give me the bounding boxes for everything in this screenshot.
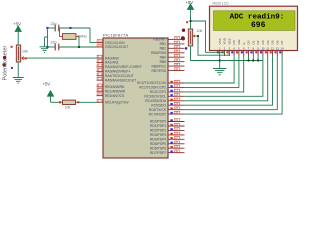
- pin RC6/TX/CK (25) right: [149, 107, 185, 112]
- state square RC7: [170, 112, 172, 114]
- svg-text:RD0/PSP0: RD0/PSP0: [150, 120, 166, 124]
- svg-text:8MHz: 8MHz: [78, 34, 88, 38]
- state square LCD VEE: [226, 51, 228, 53]
- pin RA4/T0CKI/C1OUT (6) left: [97, 73, 134, 78]
- svg-text:ADC readin9:: ADC readin9:: [230, 13, 285, 21]
- svg-text:RC6/TX/CK: RC6/TX/CK: [149, 108, 167, 112]
- state square LCD VDD: [222, 51, 224, 53]
- pin RA3/AN3/VREF+ (5) left: [97, 69, 131, 74]
- wire pot bottom to ground rail: [191, 46, 220, 61]
- svg-text:10k: 10k: [22, 50, 28, 54]
- state square RB2: [185, 47, 187, 49]
- LCD pin VEE (3): [227, 38, 231, 56]
- potentiometer RV1 10k: [2, 45, 27, 69]
- state square LCD RS: [231, 51, 233, 53]
- svg-text:RA5/AN4/SS/C2OUT: RA5/AN4/SS/C2OUT: [105, 78, 136, 82]
- power +5V (LCD contrast): [186, 0, 194, 29]
- svg-text:MCLR/Vpp/THV: MCLR/Vpp/THV: [105, 101, 129, 105]
- state square LCD D7: [279, 51, 281, 53]
- state square RD2: [170, 128, 172, 130]
- pin RD2/PSP2 (21) right: [150, 128, 184, 133]
- junction D2: [257, 59, 259, 61]
- svg-text:RW: RW: [237, 39, 241, 44]
- pin RB1 (34) right: [160, 41, 185, 46]
- svg-text:RB7/PGD: RB7/PGD: [152, 69, 167, 73]
- state square LCD D3: [260, 51, 262, 53]
- state square RD5: [170, 142, 172, 144]
- svg-text:RD1/PSP1: RD1/PSP1: [150, 124, 166, 128]
- LCD pin D7 (14): [280, 40, 284, 56]
- wire pot wiper to RA0/AN0: [26, 57, 97, 59]
- pin RE0/AN5/RD (8) left: [97, 84, 126, 89]
- capacitor C2 22p (bottom): [46, 41, 96, 51]
- wire LCD D2 to ground rail: [257, 56, 259, 61]
- pin RD1/PSP1 (20) right: [150, 123, 184, 128]
- svg-text:VEE: VEE: [227, 38, 231, 44]
- pin RE2/AN7/CS (10) left: [97, 93, 126, 98]
- svg-text:10k: 10k: [65, 106, 71, 110]
- svg-text:RD6/PSP6: RD6/PSP6: [150, 146, 166, 150]
- junction VSS/ground rail: [219, 59, 221, 61]
- LCD pin VDD (2): [223, 37, 227, 56]
- svg-text:D1: D1: [251, 40, 255, 44]
- svg-text:RB3/PGM: RB3/PGM: [151, 51, 166, 55]
- state square RD7: [170, 151, 172, 153]
- capacitor C1 22p (top): [46, 22, 90, 31]
- power +5V (left pot supply): [14, 22, 22, 46]
- svg-text:RC2/CCP1: RC2/CCP1: [150, 90, 166, 94]
- svg-text:PIC16F877A: PIC16F877A: [103, 33, 128, 38]
- svg-text:RS: RS: [232, 40, 236, 44]
- wire LCD E to PIC (RC bank): [185, 56, 244, 92]
- junction D1: [252, 59, 254, 61]
- state square LCD D5: [270, 51, 272, 53]
- svg-text:OSC1/CLKIN: OSC1/CLKIN: [105, 41, 125, 45]
- svg-text:RE0/AN5/RD: RE0/AN5/RD: [105, 85, 125, 89]
- state square RC3: [170, 94, 172, 96]
- svg-text:RC5/SDO: RC5/SDO: [151, 103, 166, 107]
- crystal X1 8MHz: [60, 28, 88, 48]
- wire LCD D5 to PIC (RC bank): [185, 56, 273, 105]
- state square LCD E: [241, 51, 243, 53]
- svg-text:RC7/RX/DT: RC7/RX/DT: [149, 112, 166, 116]
- junction wiper: [197, 35, 199, 37]
- ground (LCD): [213, 69, 226, 75]
- pin RD3/PSP3 (22) right: [150, 132, 184, 137]
- svg-text:D6: D6: [275, 40, 279, 44]
- svg-text:E: E: [242, 42, 246, 44]
- pin RD7/PSP7 (30) right: [150, 150, 184, 155]
- svg-text:RD5/PSP5: RD5/PSP5: [150, 142, 166, 146]
- pin RB3/PGM (36) right: [151, 50, 184, 55]
- pin RD5/PSP5 (28) right: [150, 141, 184, 146]
- junction pot top: [189, 20, 191, 22]
- svg-text:RE2/AN7/CS: RE2/AN7/CS: [105, 94, 125, 98]
- svg-text:RD4/PSP4: RD4/PSP4: [150, 138, 166, 142]
- wire LCD D0 to ground rail: [248, 56, 250, 61]
- LCD pin RW (5): [237, 39, 241, 56]
- state square RD6: [170, 146, 172, 148]
- state square RC0: [170, 81, 172, 83]
- resistor R1 10k: [51, 100, 97, 109]
- ground below pot: [13, 62, 24, 83]
- pin RC3/SCK/SCL (18) right: [144, 94, 184, 99]
- wire LCD D3 to PIC (RC bank): [185, 56, 263, 96]
- state square RD4: [170, 137, 172, 139]
- junction D0: [247, 59, 249, 61]
- pin RB2 (35) right: [160, 46, 185, 51]
- pin RB0/INT (33) right: [153, 37, 184, 42]
- svg-text:D0: D0: [247, 40, 251, 44]
- state square RC5: [170, 103, 172, 105]
- pin RC0/T1OSO/T1CKI (15) right: [137, 80, 184, 85]
- state square LCD D4: [265, 51, 267, 53]
- pin RA0/AN0 (2) left: [97, 55, 119, 60]
- svg-text:RB6/PGC: RB6/PGC: [152, 64, 167, 68]
- pin RC2/CCP1 (17) right: [150, 89, 185, 94]
- LCD pin D3 (10): [261, 40, 265, 56]
- svg-text:+5V: +5V: [43, 81, 51, 86]
- svg-text:RC4/SDI/SDA: RC4/SDI/SDA: [145, 99, 167, 103]
- wire LCD D1 to ground rail: [252, 56, 254, 61]
- pin RB4 (37) right: [160, 54, 185, 59]
- LCD pin D0 (7): [247, 40, 251, 56]
- svg-text:+5V: +5V: [186, 0, 194, 5]
- pin RC7/RX/DT (26) right: [149, 111, 185, 116]
- LCD LM016L body: [210, 6, 298, 50]
- pin OSC2/CLKOUT (14) left: [97, 44, 129, 49]
- LCD screen: [214, 11, 296, 31]
- LCD pin D4 (11): [266, 40, 270, 56]
- svg-text:VDD: VDD: [223, 37, 227, 44]
- svg-text:RA4/T0CKI/C1OUT: RA4/T0CKI/C1OUT: [105, 74, 134, 78]
- svg-text:RB0/INT: RB0/INT: [153, 38, 166, 42]
- state square RB0: [181, 36, 185, 40]
- pin RC4/SDI/SDA (23) right: [145, 98, 184, 103]
- wire OSC1: [89, 28, 91, 43]
- svg-text:RD2/PSP2: RD2/PSP2: [150, 129, 166, 133]
- svg-text:RD7/PSP7: RD7/PSP7: [150, 151, 166, 155]
- pin RD6/PSP6 (29) right: [150, 145, 184, 150]
- svg-text:Potentiometer: Potentiometer: [3, 46, 9, 81]
- pin RA2/AN2/VREF-/CVREF (4) left: [97, 64, 142, 69]
- wire caps left rail: [47, 28, 49, 47]
- svg-text:RC3/SCK/SCL: RC3/SCK/SCL: [144, 95, 166, 99]
- LCD pin D1 (8): [251, 40, 255, 56]
- svg-text:RA1/AN1: RA1/AN1: [105, 61, 119, 65]
- wire wiper to VEE: [197, 36, 230, 55]
- wire VSS down to ground: [219, 56, 221, 69]
- ground rail D0-D2: [220, 60, 263, 62]
- LCD pin D5 (12): [271, 40, 275, 56]
- svg-text:D2: D2: [256, 40, 260, 44]
- state square RD1: [170, 124, 172, 126]
- wire LCD RS to PIC (RC bank): [185, 56, 235, 83]
- svg-text:696: 696: [251, 21, 266, 30]
- potentiometer RV2 10k (contrast): [182, 21, 203, 49]
- LCD pin RS (4): [232, 40, 236, 56]
- LCD pin E (6): [242, 42, 246, 56]
- LCD pin D2 (9): [256, 40, 260, 56]
- power +5V (MCLR pull-up): [43, 81, 54, 102]
- wire LCD D4 to PIC (RC bank): [185, 56, 268, 101]
- pin RE1/AN6/WR (9) left: [97, 88, 126, 93]
- state square LCD D2: [255, 51, 257, 53]
- pin RD4/PSP4 (27) right: [150, 137, 184, 142]
- wire +5V to VDD: [191, 21, 225, 52]
- state square LCD D0: [246, 51, 248, 53]
- state square RC4: [170, 99, 172, 101]
- state square LCD D6: [274, 51, 276, 53]
- state square RC6: [170, 108, 172, 110]
- svg-text:RD3/PSP3: RD3/PSP3: [150, 133, 166, 137]
- svg-text:RC0/T1OSO/T1CKI: RC0/T1OSO/T1CKI: [137, 81, 166, 85]
- ground (crystal rail): [40, 37, 50, 53]
- LCD pin VSS (1): [218, 38, 222, 56]
- svg-text:D5: D5: [271, 40, 275, 44]
- pin RB7/PGD (40) right: [152, 68, 185, 73]
- svg-text:M020 LCD: M020 LCD: [213, 2, 230, 6]
- pin MCLR/Vpp/THV (1) left: [97, 99, 130, 104]
- svg-text:D7: D7: [280, 40, 284, 44]
- wire LCD RW to PIC (RC bank): [185, 56, 239, 87]
- svg-text:D4: D4: [266, 40, 270, 44]
- svg-text:RA0/AN0: RA0/AN0: [105, 56, 119, 60]
- state square RD0: [170, 119, 172, 121]
- state square RC2: [170, 90, 172, 92]
- svg-text:OSC2/CLKOUT: OSC2/CLKOUT: [105, 45, 128, 49]
- wire LCD D6 to PIC (RC bank): [185, 56, 278, 110]
- state square LCD D1: [250, 51, 252, 53]
- svg-text:RE1/AN6/WR: RE1/AN6/WR: [105, 90, 126, 94]
- svg-text:RA3/AN3/VREF+: RA3/AN3/VREF+: [105, 70, 130, 74]
- pin RB6/PGC (39) right: [152, 63, 185, 68]
- svg-text:+5V: +5V: [14, 22, 22, 27]
- pin RA5/AN4/SS/C2OUT (7) left: [97, 77, 137, 82]
- wire LCD D7 to PIC (RC bank): [185, 56, 283, 114]
- state square RC1: [170, 85, 172, 87]
- IC U1 PIC16F877A body: [103, 33, 168, 159]
- svg-text:10k: 10k: [197, 29, 203, 33]
- state square RD3: [170, 133, 172, 135]
- pin RB5 (38) right: [160, 59, 185, 64]
- svg-text:RB2: RB2: [160, 47, 167, 51]
- svg-text:RB1: RB1: [160, 42, 167, 46]
- svg-text:D3: D3: [261, 40, 265, 44]
- pin RD0/PSP0 (19) right: [150, 119, 184, 124]
- pin OSC1/CLKIN (13) left: [97, 40, 126, 45]
- LCD pin D6 (13): [275, 40, 279, 56]
- svg-text:VSS: VSS: [218, 38, 222, 44]
- svg-text:RB5: RB5: [160, 60, 167, 64]
- state square LCD RW: [236, 51, 238, 53]
- pin RA1/AN1 (3) left: [97, 60, 119, 65]
- state square LCD VSS: [217, 51, 219, 53]
- pin RC5/SDO (24) right: [151, 102, 184, 107]
- svg-text:RA2/AN2/VREF-/CVREF: RA2/AN2/VREF-/CVREF: [105, 65, 142, 69]
- pin RC1/T1OSI/CCP2 (16) right: [139, 85, 184, 90]
- svg-text:RB4: RB4: [160, 55, 167, 59]
- svg-text:RC1/T1OSI/CCP2: RC1/T1OSI/CCP2: [139, 86, 166, 90]
